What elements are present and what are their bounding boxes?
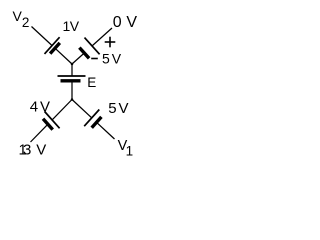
- svg-text:4: 4: [30, 98, 38, 115]
- junction node T (top): [71, 63, 74, 66]
- battery bottom-left (13V branch): long thin plate: [45, 112, 60, 129]
- capacitor E: thick bottom plate: [61, 79, 81, 82]
- svg-text:E: E: [87, 75, 96, 90]
- wire bottom-left (13V branch) segment b: [31, 124, 48, 142]
- svg-text:3: 3: [23, 142, 31, 159]
- svg-text:V: V: [70, 18, 80, 34]
- capacitor E: thin top plate: [58, 75, 86, 77]
- battery top-left (V2 branch): long thin plate: [45, 37, 60, 54]
- svg-text:V: V: [126, 14, 137, 31]
- svg-text:V: V: [36, 142, 46, 159]
- battery bottom-right (V1 branch): long thin plate: [84, 110, 99, 127]
- wire bottom-right (V1 branch) segment b: [97, 122, 115, 139]
- battery top-right (0V branch): long thin plate: [85, 38, 100, 55]
- polarity - sign: [91, 58, 98, 60]
- wire top-left (V2 branch) segment b: [55, 48, 72, 64]
- svg-text:5: 5: [108, 100, 116, 117]
- wire capacitor E to node B: [71, 81, 73, 100]
- wire bottom-right (V1 branch) segment a: [72, 100, 92, 118]
- wire top-left (V2 branch) segment a: [32, 27, 53, 46]
- svg-text:V: V: [40, 98, 50, 115]
- svg-text:0: 0: [113, 14, 122, 31]
- svg-text:V: V: [119, 100, 129, 117]
- polarity + sign: [105, 41, 116, 43]
- battery top-right (0V branch): short thick plate: [79, 48, 89, 59]
- junction node B (bottom): [71, 98, 74, 101]
- svg-text:5: 5: [102, 51, 110, 67]
- wire node T to capacitor E: [71, 64, 73, 76]
- wire top-right (0V branch) segment a: [72, 53, 84, 64]
- battery bottom-left (13V branch): short thick plate: [43, 119, 53, 130]
- svg-text:V: V: [112, 51, 122, 67]
- battery bottom-right (V1 branch): short thick plate: [92, 117, 102, 128]
- svg-text:1: 1: [126, 144, 134, 159]
- wire top-right (0V branch) segment b: [92, 28, 112, 46]
- svg-text:2: 2: [22, 15, 30, 30]
- wire bottom-left (13V branch) segment a: [52, 100, 72, 120]
- battery top-left (V2 branch): short thick plate: [50, 43, 60, 54]
